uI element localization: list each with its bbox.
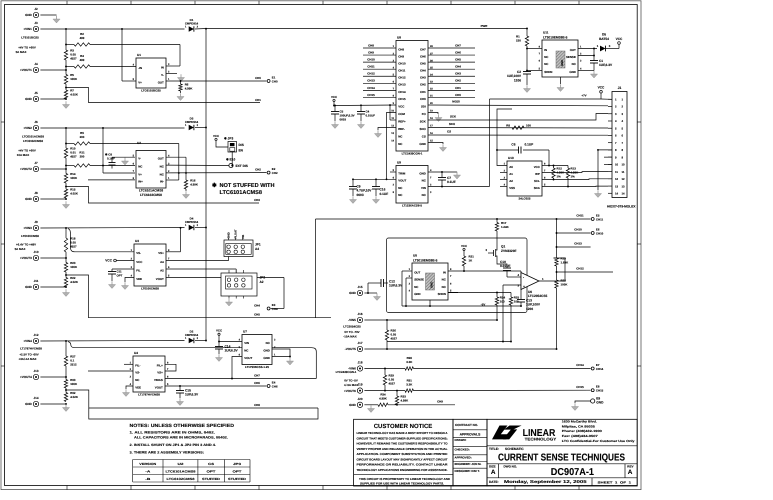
junction C4 bbox=[360, 104, 362, 106]
resistor R33 bbox=[395, 395, 409, 405]
svg-text:+: + bbox=[523, 285, 525, 289]
svg-text:1206: 1206 bbox=[526, 307, 533, 311]
svg-text:+VIN1: +VIN1 bbox=[23, 27, 32, 31]
wire U10 A2 stub bbox=[500, 179, 507, 181]
svg-text:4.02K: 4.02K bbox=[70, 395, 79, 399]
svg-text:CH4: CH4 bbox=[420, 69, 426, 73]
svg-text:CS: CS bbox=[447, 129, 451, 133]
svg-text:CH6: CH6 bbox=[455, 50, 461, 54]
wire R30 bottom bbox=[65, 388, 67, 393]
svg-text:OUT: OUT bbox=[570, 48, 576, 52]
junction C7 bbox=[441, 171, 443, 173]
svg-text:1630 McCarthy Blvd.: 1630 McCarthy Blvd. bbox=[562, 420, 597, 424]
reference U9 bbox=[393, 161, 432, 208]
junction JP3 / EXT DIS bbox=[231, 165, 233, 167]
svg-text:LINEAR TECHNOLOGY HAS MADE A B: LINEAR TECHNOLOGY HAS MADE A BEST EFFORT… bbox=[357, 431, 449, 435]
ground below U11 pad bbox=[557, 84, 564, 91]
svg-text:VS+: VS+ bbox=[157, 370, 163, 374]
wire J20 to R34 bbox=[364, 404, 378, 406]
svg-text:CH2: CH2 bbox=[272, 171, 278, 175]
svg-text:DRAWN:: DRAWN: bbox=[455, 438, 467, 442]
svg-text:PERFORMANCE OR RELIABILITY. C: PERFORMANCE OR RELIABILITY. CONTACT LINE… bbox=[357, 463, 449, 467]
svg-text:13: 13 bbox=[615, 184, 619, 188]
svg-text:0.1UF: 0.1UF bbox=[380, 192, 389, 196]
svg-text:CH0: CH0 bbox=[455, 93, 461, 97]
svg-text:U11: U11 bbox=[543, 31, 549, 35]
resistor R21 bbox=[462, 255, 474, 267]
svg-text:A4: A4 bbox=[160, 260, 164, 264]
svg-text:+4V TO +60V: +4V TO +60V bbox=[18, 148, 36, 152]
svg-text:CH12: CH12 bbox=[398, 76, 406, 80]
connector J9 bbox=[23, 220, 38, 231]
wire R5 bottom bbox=[65, 84, 67, 90]
VCC symbol at JP3 bbox=[213, 134, 220, 141]
wire E9 to ground bbox=[575, 401, 591, 403]
svg-text:4527: 4527 bbox=[70, 155, 77, 159]
svg-text:CURRENT SENSE TECHNIQUES: CURRENT SENSE TECHNIQUES bbox=[498, 452, 625, 463]
regulator U5 bbox=[409, 254, 452, 300]
svg-text:SCL: SCL bbox=[534, 179, 540, 183]
svg-text:GND: GND bbox=[25, 97, 33, 101]
resistor R8 bbox=[506, 124, 531, 130]
svg-text:FIL: FIL bbox=[136, 268, 141, 272]
svg-text:CH7: CH7 bbox=[420, 47, 426, 51]
thermal pad U5 bbox=[426, 273, 435, 290]
junction VCC rail bbox=[333, 105, 335, 107]
junction C14 bbox=[218, 341, 220, 343]
svg-text:100K: 100K bbox=[70, 176, 78, 180]
resistor R13 bbox=[566, 167, 579, 179]
junction CH1 tap bbox=[65, 87, 67, 89]
svg-text:1. ALL RESISTORS ARE IN OHMS,: 1. ALL RESISTORS ARE IN OHMS, 0402. bbox=[130, 430, 216, 434]
wire SENSE to OUT bbox=[578, 49, 594, 56]
svg-text:CH5: CH5 bbox=[455, 58, 461, 62]
svg-text:U1: U1 bbox=[137, 53, 141, 57]
wire U5 pad down bbox=[429, 300, 431, 306]
junction feedback / CH2 bbox=[178, 172, 180, 174]
wire shunt2 bottom bbox=[65, 158, 67, 169]
wire R1 bottom bbox=[526, 46, 528, 49]
test point E1 bbox=[267, 75, 278, 83]
wire Kelvin sense return bbox=[387, 341, 511, 343]
svg-text:A2: A2 bbox=[260, 280, 264, 284]
test point E4 bbox=[267, 380, 278, 388]
svg-text:CH11: CH11 bbox=[596, 217, 604, 221]
svg-text:CH3: CH3 bbox=[254, 198, 260, 202]
ground below R16 bbox=[182, 191, 189, 198]
svg-text:IN: IN bbox=[161, 65, 164, 69]
svg-text:200: 200 bbox=[80, 155, 85, 159]
wire R26 bottom lead bbox=[386, 340, 388, 349]
sheet row vertical bbox=[591, 478, 593, 486]
section outline box bbox=[387, 238, 528, 313]
wire CH9 bbox=[388, 404, 455, 406]
capacitor C8 (not stuffed) bbox=[105, 152, 135, 168]
svg-text:U3: U3 bbox=[135, 239, 139, 243]
svg-text:CH3: CH3 bbox=[455, 72, 461, 76]
svg-text:+7V: +7V bbox=[581, 94, 586, 98]
wire JP2 pin down bbox=[235, 269, 237, 273]
size row verticals bbox=[499, 464, 626, 478]
svg-text:VCC: VCC bbox=[331, 95, 338, 99]
resistor R12 bbox=[552, 167, 565, 179]
wire R4 left bbox=[66, 66, 74, 68]
svg-text:-10A MAX: -10A MAX bbox=[343, 335, 356, 339]
svg-text:GND: GND bbox=[263, 348, 269, 352]
svg-text:CH15: CH15 bbox=[367, 93, 375, 97]
capacitor C7 bbox=[438, 172, 456, 187]
wire U8 output CH4 bbox=[428, 68, 475, 70]
junction REF+ tap bbox=[389, 104, 391, 106]
junction OUT / SENSE bbox=[593, 48, 595, 50]
wire R14 top bbox=[65, 169, 67, 174]
svg-text:0V TO -70V: 0V TO -70V bbox=[344, 330, 359, 334]
svg-text:C6: C6 bbox=[511, 142, 515, 146]
wire R6 bottom bbox=[180, 91, 182, 93]
wire to U7 VIN bbox=[219, 341, 242, 343]
svg-text:MOSI: MOSI bbox=[452, 100, 460, 104]
junction CH5 tap bbox=[65, 274, 67, 276]
customer notice box bbox=[354, 419, 453, 486]
ground below C11 bbox=[108, 281, 115, 288]
wire D1 to PWR bus bbox=[195, 28, 206, 31]
wire +VIN4 bbox=[40, 340, 184, 343]
svg-text:4.02K: 4.02K bbox=[70, 192, 79, 196]
wire sense bus lower bbox=[556, 288, 558, 349]
svg-text:+VOUT6: +VOUT6 bbox=[344, 389, 356, 393]
wire U7 GND pins bbox=[272, 349, 290, 358]
svg-text:CH4: CH4 bbox=[272, 307, 278, 311]
svg-text:LT1787HVCMS8: LT1787HVCMS8 bbox=[20, 347, 42, 351]
wire FO to ground bbox=[428, 113, 438, 115]
svg-text:V-: V- bbox=[138, 157, 141, 161]
wire C6 right down bbox=[548, 150, 550, 166]
svg-text:SIZE: SIZE bbox=[489, 464, 496, 468]
op-amp U2 bbox=[133, 141, 170, 188]
wire R17 to Q1 bbox=[496, 231, 498, 247]
junction R24 rail bbox=[496, 292, 498, 294]
wire U2 OUT bbox=[166, 156, 186, 158]
svg-text:CH8: CH8 bbox=[368, 43, 374, 47]
svg-text:CH4: CH4 bbox=[455, 65, 461, 69]
junction CH12 bbox=[556, 271, 558, 273]
svg-text:CH13: CH13 bbox=[367, 79, 375, 83]
ground at J2 bbox=[53, 16, 60, 23]
svg-text:OPT: OPT bbox=[117, 274, 123, 278]
svg-text:CH0: CH0 bbox=[272, 79, 278, 83]
VCC symbol at R21 bbox=[461, 244, 468, 251]
wire -VOUT5 bbox=[364, 348, 556, 350]
regulator U11 bbox=[539, 31, 582, 77]
wire R30 top bbox=[65, 377, 67, 380]
note NOT STUFFED bbox=[212, 182, 275, 196]
junction pad / rail bbox=[429, 305, 431, 307]
wire CH1 bbox=[66, 88, 260, 103]
svg-text:A2: A2 bbox=[509, 179, 513, 183]
svg-text:U10: U10 bbox=[508, 156, 514, 160]
svg-text:SDA: SDA bbox=[534, 186, 541, 190]
wire CH13 bbox=[557, 246, 591, 248]
svg-text:J20: J20 bbox=[357, 397, 362, 401]
junction R33 / CH9 bbox=[396, 404, 398, 406]
svg-text:ALL CAPACITORS ARE IN MICROFAR: ALL CAPACITORS ARE IN MICROFARADS, 00402… bbox=[134, 436, 228, 440]
wire U4 FIL+ to VS+ loop bbox=[165, 364, 176, 371]
svg-text:CH5: CH5 bbox=[420, 62, 426, 66]
svg-text:SUPPLIED FOR USE WITH LINEAR T: SUPPLIED FOR USE WITH LINEAR TECHNOLOGY … bbox=[360, 482, 444, 486]
wire R24 top bbox=[496, 293, 498, 298]
junction +VOUT2 bbox=[65, 168, 67, 170]
svg-text:CIRCUIT THAT MEETS CUSTOMER-SU: CIRCUIT THAT MEETS CUSTOMER-SUPPLIED SPE… bbox=[357, 436, 448, 440]
connector J7 bbox=[20, 161, 39, 172]
wire U5 OUT stub bbox=[402, 270, 412, 272]
VCC symbol at J1 bbox=[598, 86, 605, 99]
svg-text:CH14: CH14 bbox=[576, 363, 584, 367]
junction R26 / J17 bbox=[386, 348, 388, 350]
wire U8 input CH9 bbox=[363, 54, 396, 56]
svg-text:1UF,6.3V: 1UF,6.3V bbox=[599, 63, 613, 67]
resistor R4 bbox=[74, 54, 90, 68]
wire U4 FIL- stub bbox=[124, 363, 133, 365]
connector J17 bbox=[345, 341, 363, 352]
svg-text:LTC6102CMS8: LTC6102CMS8 bbox=[140, 193, 162, 197]
svg-text:13: 13 bbox=[622, 184, 626, 188]
svg-text:LT3010EMS8E-5: LT3010EMS8E-5 bbox=[543, 36, 568, 40]
svg-text:IN: IN bbox=[443, 270, 446, 274]
svg-text:4.99K: 4.99K bbox=[379, 396, 388, 400]
svg-text:OUT: OUT bbox=[158, 80, 164, 84]
ground at REF- bbox=[374, 130, 381, 137]
svg-text:J10: J10 bbox=[33, 250, 38, 254]
svg-text:4.02K: 4.02K bbox=[70, 280, 79, 284]
capacitor C2 bbox=[507, 70, 531, 85]
junction C9 bbox=[352, 178, 354, 180]
svg-text:1206: 1206 bbox=[514, 78, 521, 82]
wire shunt2 top bbox=[65, 128, 67, 148]
svg-text:GND: GND bbox=[349, 291, 357, 295]
wire C11 bottom bbox=[111, 274, 113, 281]
ADC U8 bbox=[391, 36, 433, 156]
svg-text:DC907A-1: DC907A-1 bbox=[551, 467, 595, 478]
wire U4 VEE bbox=[126, 386, 133, 389]
junction R6 bbox=[180, 80, 182, 82]
wire CH12 bbox=[557, 271, 614, 273]
svg-text:GND: GND bbox=[414, 292, 420, 296]
wire R6 top bbox=[180, 81, 182, 84]
wire VOUT down to CH4 bbox=[283, 278, 285, 309]
ground at U1 V- bbox=[177, 74, 184, 81]
svg-text:GND: GND bbox=[25, 197, 33, 201]
svg-text:4.02K: 4.02K bbox=[70, 93, 79, 97]
wire +VOUT3 bbox=[40, 257, 66, 259]
wire U11 GND pin bbox=[578, 70, 594, 72]
resistor R23 bbox=[555, 279, 569, 289]
wire U8 GND pin bbox=[428, 143, 443, 145]
wire R21 bottom bbox=[463, 266, 465, 271]
junction bus / J17 bbox=[556, 348, 558, 350]
svg-text:0603: 0603 bbox=[340, 117, 347, 121]
wire R17 top bbox=[496, 219, 498, 223]
wire TRIM stub bbox=[390, 171, 396, 173]
svg-text:1UF,6.3V: 1UF,6.3V bbox=[185, 393, 199, 397]
wire R2 left bbox=[66, 44, 74, 46]
svg-text:CH10: CH10 bbox=[574, 228, 582, 232]
ground at U7 bbox=[286, 358, 293, 365]
svg-text:GND: GND bbox=[25, 285, 33, 289]
connector J19 bbox=[344, 383, 363, 394]
date row divider bbox=[487, 477, 637, 479]
svg-text:J6: J6 bbox=[34, 120, 38, 124]
svg-text:VCC: VCC bbox=[398, 104, 405, 108]
VCC symbol at U7 bbox=[216, 329, 223, 336]
svg-text:GND: GND bbox=[430, 282, 434, 288]
svg-text:3.3K: 3.3K bbox=[406, 360, 413, 364]
junction bus / D2 bbox=[205, 340, 207, 342]
resistor R31 bbox=[405, 378, 414, 392]
wire CH5 bbox=[66, 275, 331, 318]
capacitor C5 bbox=[331, 106, 355, 122]
wire R24 to -VIN5 net bbox=[496, 305, 498, 320]
svg-text:DATE:: DATE: bbox=[489, 480, 499, 484]
svg-text:COM: COM bbox=[398, 112, 405, 116]
svg-text:CH2: CH2 bbox=[255, 168, 261, 172]
svg-text:VCC: VCC bbox=[105, 259, 112, 263]
wire COM down to U9 bbox=[387, 113, 397, 180]
svg-text:PWR: PWR bbox=[481, 24, 489, 28]
wire R29 bottom lead bbox=[384, 385, 386, 391]
resistor R27 shunt bbox=[64, 355, 77, 367]
connector J15 bbox=[349, 285, 363, 296]
svg-text:GND: GND bbox=[419, 142, 425, 146]
svg-text:OPT: OPT bbox=[207, 469, 216, 473]
ground below C4 bbox=[357, 121, 364, 128]
wire CH2 bbox=[166, 172, 267, 174]
svg-text:+VIN3: +VIN3 bbox=[23, 226, 32, 230]
wire R12 top bbox=[553, 166, 555, 169]
ground below C9 bbox=[349, 196, 356, 203]
wire U7 GND pin1 bbox=[272, 356, 290, 358]
ground below JP2 bbox=[225, 299, 232, 306]
wire CH11 bbox=[316, 218, 591, 220]
wire to U1 pin 3 bbox=[166, 65, 180, 67]
svg-text:Fax: (408)434-0507: Fax: (408)434-0507 bbox=[562, 434, 598, 438]
title block box bbox=[487, 419, 637, 486]
svg-text:CH4: CH4 bbox=[254, 304, 260, 308]
capacitor C1 bbox=[590, 56, 613, 70]
wire shunt3 bottom bbox=[65, 252, 67, 258]
svg-text:1UF,6.3V: 1UF,6.3V bbox=[389, 284, 403, 288]
svg-text:LTC6102CMS8: LTC6102CMS8 bbox=[167, 477, 195, 481]
wire U4 VOUT to CH6 bbox=[165, 385, 267, 387]
svg-text:V+: V+ bbox=[138, 80, 142, 84]
wire VS+ vertical bbox=[180, 228, 182, 252]
transistor Q1 bbox=[485, 245, 516, 259]
wire feedback vertical bbox=[179, 45, 181, 67]
wire SHDN tie bbox=[527, 70, 542, 72]
junction R32 / J14 bbox=[65, 403, 67, 405]
svg-text:A4: A4 bbox=[255, 247, 259, 251]
svg-text:CH1: CH1 bbox=[420, 90, 426, 94]
svg-text:J5: J5 bbox=[34, 91, 38, 95]
capacitor C16 bbox=[372, 179, 388, 196]
junction VS+ tap bbox=[180, 227, 182, 229]
ground at J1 pin8 bbox=[594, 190, 601, 197]
wire U2 pin3 to EXT DIS bbox=[166, 164, 229, 166]
capacitor C10 bbox=[500, 260, 511, 277]
svg-text:LT6100CMS8: LT6100CMS8 bbox=[21, 234, 39, 238]
capacitor C9 bbox=[349, 179, 372, 197]
wire U8 input CH14 bbox=[363, 89, 396, 91]
junction sense / R26 net bbox=[502, 341, 504, 343]
svg-text:1%: 1% bbox=[571, 175, 576, 179]
svg-text:LTC6101ACMS8: LTC6101ACMS8 bbox=[22, 134, 44, 138]
wire D4 to bus bbox=[195, 227, 206, 229]
ground below R7 bbox=[62, 101, 69, 108]
svg-text:2. INSTALL SHUNT ON JP1 & JP2: 2. INSTALL SHUNT ON JP1 & JP2 PIN 3 AND … bbox=[130, 443, 217, 447]
approvals column bbox=[453, 419, 487, 486]
svg-text:CH6: CH6 bbox=[254, 381, 260, 385]
wire R4 to U1 pin 4 bbox=[90, 66, 136, 68]
wire R20 top bbox=[65, 258, 67, 263]
wire VCC down bbox=[333, 102, 335, 106]
svg-text:CH0: CH0 bbox=[420, 97, 426, 101]
svg-text:100K: 100K bbox=[70, 382, 78, 386]
resistor R25 bbox=[509, 296, 519, 306]
capacitor C15 bbox=[176, 386, 199, 398]
junction C5 bbox=[334, 105, 336, 107]
VCC symbol at D5 bbox=[616, 37, 623, 49]
wire U8 output CH5 bbox=[428, 61, 475, 63]
EEPROM U10 bbox=[504, 156, 546, 200]
wire U5 IN rail bbox=[448, 270, 521, 272]
ground at U8 GND bbox=[439, 144, 446, 151]
wire CH15 bbox=[414, 389, 591, 391]
connector J4 bbox=[20, 62, 39, 73]
svg-text:DIS: DIS bbox=[239, 143, 244, 147]
svg-text:SDO: SDO bbox=[420, 127, 427, 131]
svg-text:REF+: REF+ bbox=[398, 119, 406, 123]
svg-text:J1: J1 bbox=[618, 86, 622, 90]
connector J5 bbox=[25, 91, 39, 102]
svg-text:U7: U7 bbox=[243, 330, 247, 334]
svg-text:SCK: SCK bbox=[450, 115, 457, 119]
svg-text:+3A/-1A MAX: +3A/-1A MAX bbox=[19, 357, 37, 361]
svg-text:-VOUT5: -VOUT5 bbox=[345, 347, 356, 351]
svg-text:CH0: CH0 bbox=[255, 76, 261, 80]
wire R1 top bbox=[526, 29, 528, 37]
svg-text:12: 12 bbox=[622, 177, 626, 181]
svg-text:2512: 2512 bbox=[70, 363, 77, 367]
svg-text:14: 14 bbox=[622, 191, 626, 195]
wire Q1 source to C10 bbox=[497, 259, 507, 268]
svg-text:SCHEMATIC: SCHEMATIC bbox=[505, 447, 524, 451]
capacitor C4 bbox=[357, 105, 375, 121]
wire to U11 IN bbox=[527, 48, 542, 50]
junction bus / CH11 bbox=[556, 218, 558, 220]
svg-text:3.3K: 3.3K bbox=[406, 382, 413, 386]
svg-text:OUT: OUT bbox=[158, 157, 164, 161]
svg-text:IN+: IN+ bbox=[138, 179, 143, 183]
Linear Technology logo bbox=[492, 426, 522, 440]
wire U11 OUT bbox=[578, 48, 597, 50]
svg-text:J17: J17 bbox=[357, 341, 362, 345]
svg-text:SHDN: SHDN bbox=[438, 292, 446, 296]
diode D4 bbox=[185, 216, 199, 230]
svg-text:CH7: CH7 bbox=[254, 374, 260, 378]
wire U3 FIL to C11 bbox=[112, 268, 134, 270]
junction R11 tap bbox=[65, 165, 67, 167]
svg-text:4527: 4527 bbox=[70, 57, 77, 61]
svg-text:Phone: (408)432-1900: Phone: (408)432-1900 bbox=[562, 429, 602, 433]
